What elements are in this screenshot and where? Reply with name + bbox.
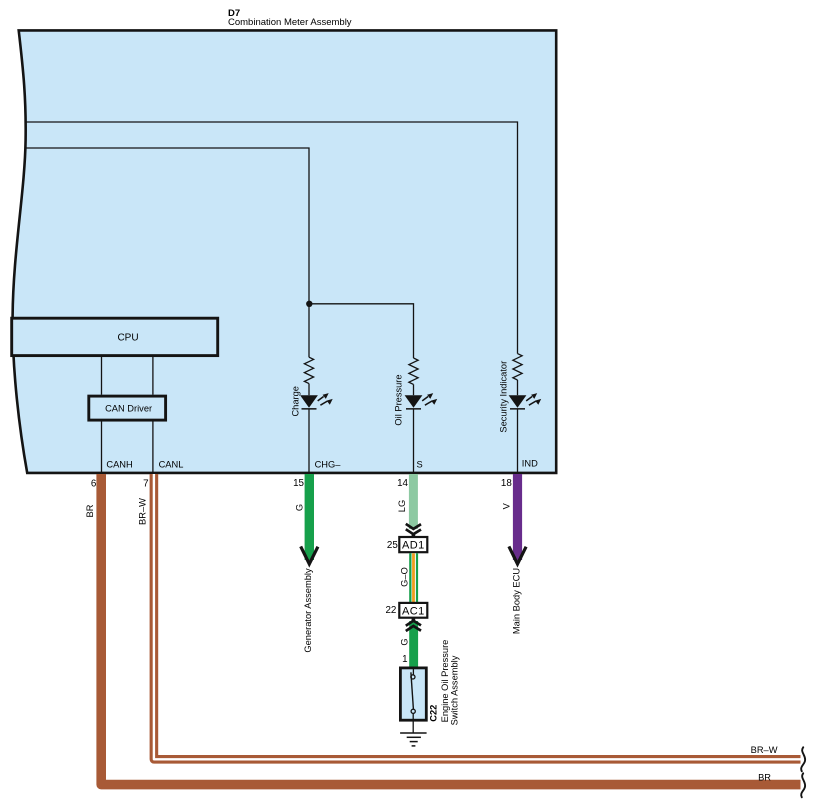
ground symbol bbox=[400, 733, 427, 746]
node junction charge/oil pressure bbox=[306, 301, 312, 307]
svg-text:7: 7 bbox=[143, 479, 148, 490]
wire CPU to CAN driver right bbox=[152, 357, 154, 395]
wire G-O green-orange bbox=[409, 553, 418, 603]
svg-text:LG: LG bbox=[397, 500, 407, 512]
resistor security indicator bbox=[513, 354, 522, 380]
wire junction to oil pressure branch bbox=[309, 304, 414, 358]
wire G oil pressure switch green bbox=[409, 621, 418, 667]
svg-text:6: 6 bbox=[91, 479, 97, 490]
svg-text:AC1: AC1 bbox=[402, 605, 425, 617]
svg-text:C22: C22 bbox=[429, 705, 439, 722]
svg-text:G: G bbox=[295, 504, 305, 511]
svg-text:14: 14 bbox=[397, 478, 408, 489]
svg-text:BR: BR bbox=[85, 504, 95, 517]
svg-text:Switch Assembly: Switch Assembly bbox=[450, 655, 460, 725]
svg-text:G–O: G–O bbox=[400, 567, 410, 587]
svg-text:25: 25 bbox=[387, 540, 398, 551]
wire CPU to CAN driver left bbox=[101, 357, 103, 395]
svg-text:CAN Driver: CAN Driver bbox=[105, 404, 152, 414]
resistor oil pressure indicator bbox=[409, 358, 418, 384]
IC CPU bbox=[12, 318, 218, 355]
LED charge indicator bbox=[300, 393, 333, 410]
wire resistor to charge LED bbox=[308, 384, 310, 396]
wire V IND violet to main body ECU bbox=[513, 474, 522, 560]
svg-text:BR: BR bbox=[758, 772, 771, 782]
svg-text:Generator Assembly: Generator Assembly bbox=[303, 568, 313, 653]
svg-text:CPU: CPU bbox=[117, 332, 138, 343]
wire LG S light green bbox=[409, 474, 418, 529]
wire security LED to pin 18 IND bbox=[517, 409, 519, 472]
LED security indicator bbox=[509, 393, 542, 410]
svg-text:CHG–: CHG– bbox=[315, 459, 342, 469]
IC CAN Driver bbox=[89, 396, 166, 420]
svg-text:S: S bbox=[417, 459, 423, 469]
svg-text:1: 1 bbox=[402, 654, 407, 665]
svg-text:Combination Meter Assembly: Combination Meter Assembly bbox=[228, 17, 352, 28]
svg-text:CANL: CANL bbox=[159, 459, 184, 469]
chevron joint out of AC1 bbox=[406, 618, 421, 631]
break symbol BR bbox=[801, 773, 805, 797]
svg-text:IND: IND bbox=[522, 459, 538, 469]
wire G CHG- green to generator bbox=[305, 474, 314, 560]
connector D7 Combination Meter Assembly box bbox=[13, 30, 557, 473]
svg-text:Main Body ECU: Main Body ECU bbox=[512, 568, 522, 634]
wire CAN driver to pin 6 CANH bbox=[101, 422, 103, 473]
LED oil pressure indicator bbox=[405, 393, 438, 410]
wire charge LED to pin 15 CHG- bbox=[308, 409, 310, 472]
wire bus line to charge branch bbox=[25, 148, 309, 357]
svg-text:Oil Pressure: Oil Pressure bbox=[393, 374, 403, 425]
svg-text:15: 15 bbox=[293, 478, 304, 489]
connector AD1 bbox=[399, 537, 427, 552]
svg-text:CANH: CANH bbox=[106, 459, 132, 469]
connector AC1 bbox=[399, 603, 427, 618]
wire BR-W CANL brown-white bbox=[154, 474, 801, 759]
svg-text:AD1: AD1 bbox=[402, 540, 425, 552]
wire resistor to security LED bbox=[517, 380, 519, 395]
wire oil pressure LED to pin 14 S bbox=[413, 409, 415, 472]
chevron joint into AD1 bbox=[406, 524, 421, 537]
wire bus line to security indicator branch bbox=[26, 122, 518, 354]
svg-text:BR–W: BR–W bbox=[751, 745, 778, 755]
wire CAN driver to pin 7 CANL bbox=[152, 422, 154, 473]
svg-text:G: G bbox=[399, 638, 409, 645]
svg-text:22: 22 bbox=[385, 605, 396, 616]
svg-text:BR–W: BR–W bbox=[138, 498, 148, 525]
svg-text:Charge: Charge bbox=[290, 386, 300, 417]
switch C22 contacts bbox=[411, 667, 416, 734]
wire resistor to oil pressure LED bbox=[413, 384, 415, 395]
connector C22 oil pressure switch box bbox=[400, 668, 426, 720]
svg-text:Security Indicator: Security Indicator bbox=[499, 361, 509, 433]
break symbol BR-W bbox=[801, 747, 805, 771]
arrowhead to main body ECU bbox=[509, 546, 526, 564]
svg-text:Engine Oil Pressure: Engine Oil Pressure bbox=[440, 640, 450, 723]
resistor charge indicator bbox=[304, 357, 313, 383]
wire BR CANH brown bbox=[101, 474, 800, 785]
arrowhead to generator assembly bbox=[301, 546, 318, 564]
svg-text:V: V bbox=[501, 502, 511, 509]
svg-text:18: 18 bbox=[501, 478, 512, 489]
